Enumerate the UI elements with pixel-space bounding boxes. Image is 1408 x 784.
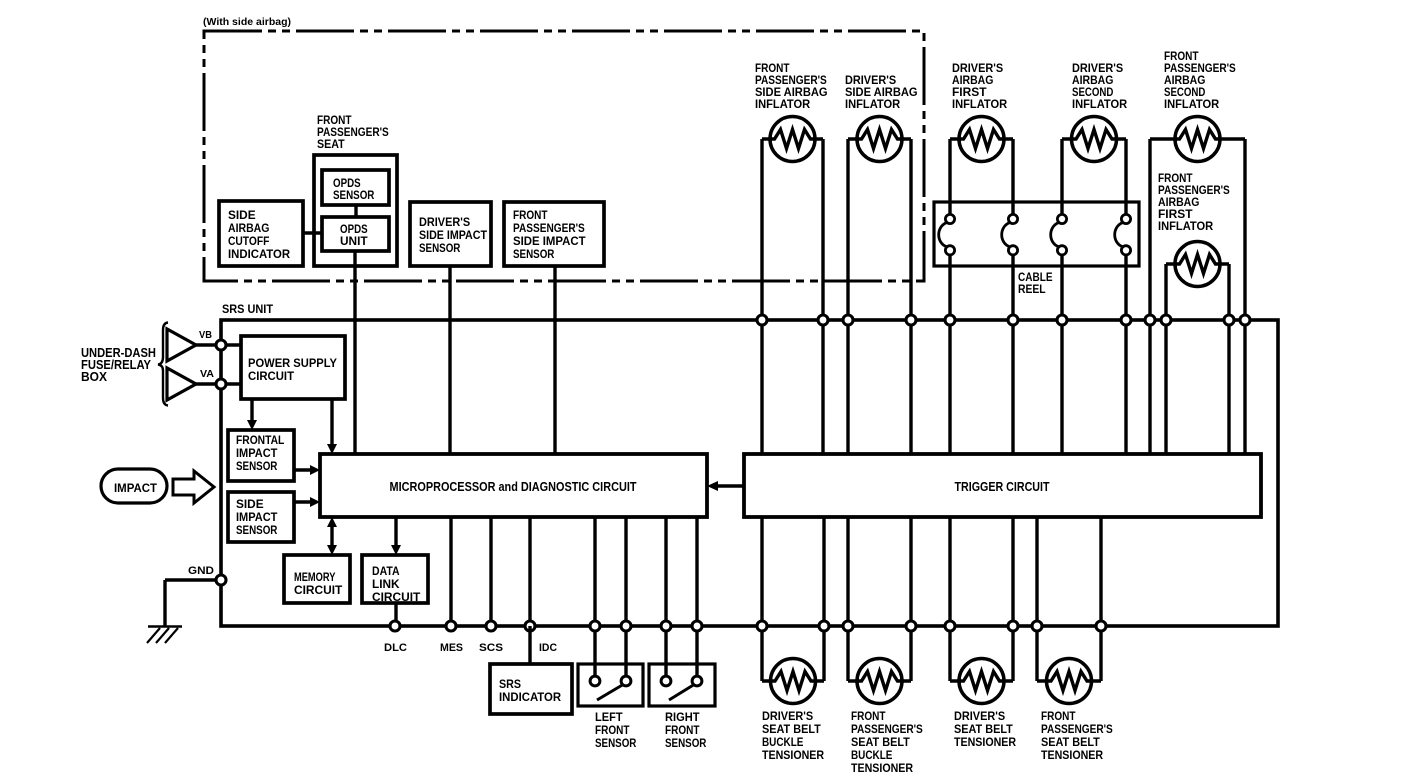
node: bottom rail x=626 (621, 621, 631, 631)
wire: fp airbag 1st left leg (1164, 264, 1167, 454)
node: SRS top edge x=1013 (1008, 315, 1018, 325)
svg-text:DRIVER'S: DRIVER'S (419, 215, 470, 229)
label: driver's side airbag inflator (845, 73, 918, 111)
box: trigger circuit (744, 454, 1261, 517)
svg-text:SEAT BELT: SEAT BELT (851, 735, 910, 749)
svg-text:PASSENGER'S: PASSENGER'S (513, 221, 585, 235)
svg-text:SENSOR: SENSOR (333, 188, 375, 202)
svg-text:SIDE: SIDE (228, 208, 256, 222)
inflator: driver's airbag first inflator (950, 117, 1013, 162)
svg-text:FRONTAL: FRONTAL (236, 433, 285, 447)
svg-text:SEAT BELT: SEAT BELT (762, 722, 821, 736)
box: frontal impact sensor (228, 430, 294, 481)
label: MES (440, 642, 463, 654)
svg-text:DRIVER'S: DRIVER'S (762, 709, 813, 723)
wire+arrow: microprocessor to data link circuit (391, 517, 401, 555)
inflator: front passenger's side airbag inflator (762, 117, 823, 162)
label: VA (200, 369, 214, 380)
dashed box: with side airbag option region (204, 31, 924, 281)
wire+arrow: frontal impact sensor to microprocessor (294, 465, 320, 475)
node: bottom rail x=911 (906, 621, 916, 631)
svg-text:INFLATOR: INFLATOR (1158, 219, 1213, 233)
wire: trigger to driver's belt tensioner right (1011, 517, 1014, 681)
ground symbol (147, 627, 182, 644)
node: SRS top edge x=911 (906, 315, 916, 325)
node: bottom rail x=395 (390, 621, 400, 631)
node: bottom rail x=595 (590, 621, 600, 631)
box: front passenger's seat (314, 155, 397, 266)
wire: cutoff indicator to OPDS unit (303, 231, 322, 234)
connector triangle VA (167, 368, 196, 400)
svg-text:SRS UNIT: SRS UNIT (222, 304, 273, 316)
svg-text:DRIVER'S: DRIVER'S (954, 709, 1005, 723)
svg-text:VB: VB (199, 330, 212, 341)
wire: fp side airbag right leg (821, 139, 824, 454)
svg-text:POWER SUPPLY: POWER SUPPLY (248, 356, 338, 370)
node: bottom rail x=491 (486, 621, 496, 631)
svg-text:SENSOR: SENSOR (665, 736, 707, 750)
svg-text:MES: MES (440, 642, 463, 654)
svg-text:FRONT: FRONT (851, 709, 886, 723)
svg-text:LINK: LINK (372, 577, 400, 591)
box: microprocessor and diagnostic circuit (320, 454, 707, 517)
wire: microprocessor to MES terminal (449, 517, 452, 626)
svg-text:LEFT: LEFT (595, 710, 623, 724)
wire: VA to SRS (196, 382, 241, 385)
svg-text:INDICATOR: INDICATOR (499, 690, 561, 704)
node: bottom rail x=848 (843, 621, 853, 631)
wire: microprocessor-memory double arrow (327, 517, 337, 555)
svg-text:UNIT: UNIT (340, 234, 368, 248)
svg-text:BUCKLE: BUCKLE (851, 748, 892, 762)
wire: fp side airbag left leg (760, 139, 763, 454)
wire: trigger to fp buckle tensioner left (846, 517, 849, 681)
cable reel contact 1 (939, 214, 955, 255)
label: front passenger's side airbag inflator (755, 61, 828, 111)
wire: driver's side airbag right leg (909, 139, 912, 454)
svg-text:INFLATOR: INFLATOR (1072, 97, 1127, 111)
cable reel box (934, 202, 1139, 266)
wire: microprocessor to left front sensor right (624, 517, 627, 676)
block arrow: impact (173, 471, 214, 503)
wire: trigger to fp belt tensioner right (1099, 517, 1102, 681)
node: VB terminal (216, 340, 226, 350)
wire: driver's side airbag left leg (846, 139, 849, 454)
wire: front passenger's side impact sensor to microprocessor (553, 266, 556, 454)
svg-text:PASSENGER'S: PASSENGER'S (1041, 722, 1113, 736)
label: VB (199, 330, 212, 341)
box: left front sensor (578, 664, 643, 706)
svg-text:CIRCUIT: CIRCUIT (294, 583, 343, 597)
label: front passenger's airbag second inflator (1164, 49, 1236, 111)
label: (With side airbag) (203, 16, 291, 28)
wire: trigger to driver's belt tensioner left (948, 517, 951, 681)
wire: trigger to fp buckle tensioner right (909, 517, 912, 681)
svg-text:IMPACT: IMPACT (236, 446, 278, 460)
wire: data link circuit to DLC terminal (394, 603, 397, 626)
bracket: fuse/relay box (158, 323, 168, 406)
tensioner: front passenger's seat belt buckle tensioner (848, 659, 911, 704)
svg-text:VA: VA (200, 369, 214, 380)
svg-text:RIGHT: RIGHT (665, 710, 700, 724)
svg-text:AIRBAG: AIRBAG (228, 221, 269, 235)
svg-text:SENSOR: SENSOR (595, 736, 637, 750)
svg-text:SEAT BELT: SEAT BELT (954, 722, 1013, 736)
box: side airbag cutoff indicator (219, 201, 303, 266)
node: SRS top edge x=1150 (1145, 315, 1155, 325)
label: DLC (384, 642, 407, 654)
svg-text:FRONT: FRONT (665, 723, 700, 737)
node: GND terminal (216, 575, 226, 585)
svg-text:TENSIONER: TENSIONER (762, 748, 824, 762)
svg-text:MICROPROCESSOR and DIAGNOSTIC: MICROPROCESSOR and DIAGNOSTIC CIRCUIT (390, 480, 637, 494)
node: SRS top edge x=1166 (1161, 315, 1171, 325)
svg-text:IMPACT: IMPACT (114, 483, 157, 495)
label: CABLE REEL (1018, 270, 1053, 296)
box: OPDS sensor (322, 170, 389, 205)
svg-text:DATA: DATA (372, 564, 400, 578)
inflator: front passenger's airbag second inflator (1150, 117, 1245, 162)
svg-text:SENSOR: SENSOR (419, 241, 461, 255)
wire: GND (165, 580, 221, 626)
node: bottom rail x=1013 (1008, 621, 1018, 631)
wire: OPDS unit to microprocessor (353, 251, 356, 454)
svg-text:CIRCUIT: CIRCUIT (248, 369, 294, 383)
svg-text:TRIGGER CIRCUIT: TRIGGER CIRCUIT (955, 480, 1050, 494)
node: bottom rail x=762 (757, 621, 767, 631)
svg-text:IMPACT: IMPACT (236, 510, 278, 524)
box: power supply circuit (241, 336, 345, 399)
wire: fp airbag 1st right leg (1227, 264, 1230, 454)
svg-text:SENSOR: SENSOR (236, 459, 278, 473)
node: bottom rail x=451 (446, 621, 456, 631)
box: OPDS unit (322, 217, 389, 251)
label: GND (188, 565, 214, 577)
node: SRS top edge x=1062 (1057, 315, 1067, 325)
wire: microprocessor to IDC terminal (528, 517, 531, 626)
label: driver's seat belt tensioner (954, 709, 1016, 749)
tensioner: front passenger's seat belt tensioner (1037, 659, 1101, 704)
box: SRS indicator (490, 664, 572, 714)
wire: OPDS sensor to OPDS unit (354, 205, 357, 217)
svg-text:TENSIONER: TENSIONER (851, 761, 913, 775)
node: SRS top edge x=762 (757, 315, 767, 325)
inflator: driver's airbag second inflator (1062, 117, 1126, 162)
box: driver's side impact sensor (410, 202, 491, 266)
node: bottom rail x=530 (525, 621, 535, 631)
svg-text:INFLATOR: INFLATOR (1164, 97, 1219, 111)
node: bottom rail x=950 (945, 621, 955, 631)
svg-text:FRONT: FRONT (1041, 709, 1076, 723)
svg-text:SCS: SCS (479, 642, 503, 654)
wire: driver's 1st inflator left leg (through cable reel) (948, 139, 951, 454)
svg-text:SEAT: SEAT (317, 137, 345, 151)
svg-text:SEAT BELT: SEAT BELT (1041, 735, 1100, 749)
svg-text:INFLATOR: INFLATOR (755, 97, 810, 111)
node: bottom rail x=666 (661, 621, 671, 631)
wire: trigger to fp belt tensioner left (1035, 517, 1038, 681)
tensioner: driver's seat belt buckle tensioner (762, 659, 824, 704)
svg-text:SENSOR: SENSOR (236, 523, 278, 537)
node: SRS top edge x=1245 (1240, 315, 1250, 325)
svg-text:INFLATOR: INFLATOR (952, 97, 1007, 111)
box: right front sensor (649, 664, 715, 706)
node: bottom rail x=824 (819, 621, 829, 631)
svg-text:IDC: IDC (539, 642, 557, 654)
label: front passenger's seat (317, 113, 389, 151)
svg-text:SENSOR: SENSOR (513, 247, 555, 261)
wire: driver's 2nd inflator left leg (through cable reel) (1060, 139, 1063, 454)
label: IDC (539, 642, 557, 654)
wire: IDC to SRS indicator (528, 626, 531, 664)
wire+arrow: side impact sensor to microprocessor (294, 497, 320, 507)
svg-text:GND: GND (188, 565, 214, 577)
wire: microprocessor to right front sensor left (664, 517, 667, 676)
svg-text:SIDE IMPACT: SIDE IMPACT (513, 234, 586, 248)
wire: microprocessor to left front sensor left (593, 517, 596, 676)
wire: fp airbag 2nd right leg (1243, 139, 1246, 454)
svg-text:FRONT: FRONT (595, 723, 630, 737)
box: side impact sensor (228, 492, 294, 542)
cable reel contact 2 (1002, 214, 1018, 255)
svg-text:SIDE: SIDE (236, 497, 264, 511)
inflator: driver's side airbag inflator (848, 117, 911, 162)
label: SRS UNIT (222, 304, 273, 316)
svg-text:PASSENGER'S: PASSENGER'S (851, 722, 923, 736)
svg-text:TENSIONER: TENSIONER (1041, 748, 1103, 762)
wire+arrow: trigger circuit to microprocessor (707, 481, 744, 491)
svg-text:CIRCUIT: CIRCUIT (372, 590, 421, 604)
node: bottom rail x=697 (692, 621, 702, 631)
tensioner: driver's seat belt tensioner (950, 659, 1013, 704)
wire: microprocessor to SCS terminal (489, 517, 492, 626)
node: SRS top edge x=848 (843, 315, 853, 325)
label: driver's airbag second inflator (1072, 61, 1127, 111)
svg-text:MEMORY: MEMORY (294, 570, 335, 584)
label: front passenger's airbag first inflator (1158, 171, 1230, 233)
svg-text:SIDE IMPACT: SIDE IMPACT (419, 228, 487, 242)
box: memory circuit (284, 555, 350, 603)
box: data link circuit (362, 555, 428, 604)
label: under-dash fuse/relay box (81, 346, 156, 384)
wire: VB to SRS (196, 343, 241, 346)
svg-text:CUTOFF: CUTOFF (228, 234, 269, 248)
label: right front sensor (665, 710, 707, 750)
svg-text:BOX: BOX (81, 370, 108, 384)
svg-text:BUCKLE: BUCKLE (762, 735, 803, 749)
svg-text:FRONT: FRONT (513, 208, 548, 222)
node: SRS top edge x=950 (945, 315, 955, 325)
label: driver's airbag first inflator (952, 61, 1007, 111)
svg-text:SRS: SRS (499, 677, 521, 691)
svg-text:INFLATOR: INFLATOR (845, 97, 900, 111)
svg-text:REEL: REEL (1018, 282, 1046, 296)
node: VA terminal (216, 379, 226, 389)
connector triangle VB (167, 329, 196, 361)
svg-text:(With side airbag): (With side airbag) (203, 16, 291, 28)
label: SCS (479, 642, 503, 654)
box: front passenger's side impact sensor (504, 202, 604, 266)
node: bottom rail x=1101 (1096, 621, 1106, 631)
label: front passenger's seat belt tensioner (1041, 709, 1113, 762)
node: SRS top edge x=823 (818, 315, 828, 325)
wire: trigger to driver's buckle tensioner right (822, 517, 825, 681)
node: SRS top edge x=1126 (1121, 315, 1131, 325)
svg-text:TENSIONER: TENSIONER (954, 735, 1016, 749)
wire: trigger to driver's buckle tensioner left (760, 517, 763, 681)
wire+arrow: power supply to microprocessor (327, 399, 337, 454)
node: bottom rail x=1037 (1032, 621, 1042, 631)
label: driver's seat belt buckle tensioner (762, 709, 824, 762)
SRS UNIT box (221, 320, 1278, 626)
wire: driver's 1st inflator right leg (through cable reel) (1011, 139, 1014, 454)
cable reel contact 3 (1051, 214, 1067, 255)
wire: microprocessor to right front sensor right (695, 517, 698, 676)
wire: driver's 2nd inflator right leg (through cable reel) (1124, 139, 1127, 454)
label: front passenger's seat belt buckle tensioner (851, 709, 923, 775)
wire: driver's side impact sensor to microprocessor (448, 266, 451, 454)
svg-text:DLC: DLC (384, 642, 407, 654)
cable reel contact 4 (1115, 214, 1131, 255)
wire+arrow: power supply to frontal impact sensor (247, 399, 257, 430)
inflator: front passenger's airbag first inflator (1166, 242, 1229, 287)
wire: fp airbag 2nd left leg (1148, 139, 1151, 454)
svg-text:INDICATOR: INDICATOR (228, 247, 290, 261)
IMPACT stadium callout (101, 469, 167, 503)
label: left front sensor (595, 710, 637, 750)
node: SRS top edge x=1229 (1224, 315, 1234, 325)
